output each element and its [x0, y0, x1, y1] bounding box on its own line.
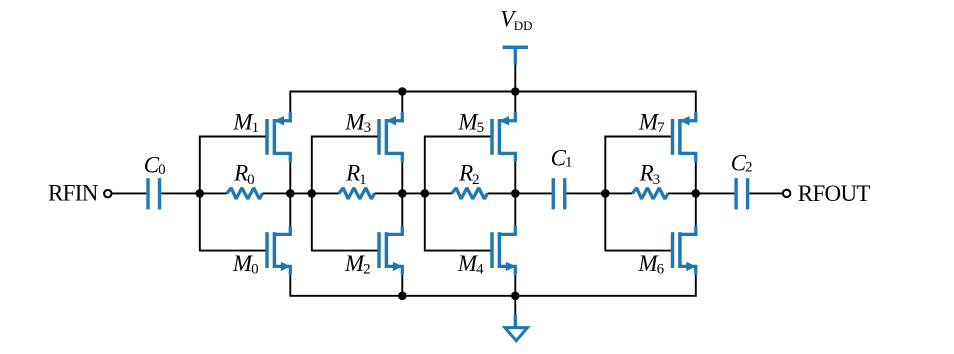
- svg-text:RFIN: RFIN: [48, 181, 99, 206]
- svg-text:RFOUT: RFOUT: [798, 181, 871, 206]
